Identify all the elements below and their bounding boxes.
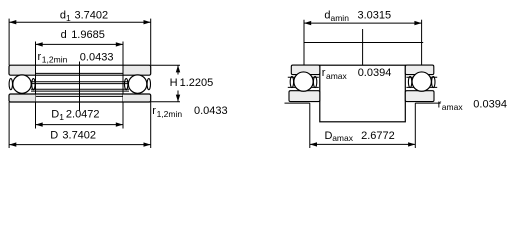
shaft abutment surface (d_a) [304,42,423,44]
svg-text:amin: amin [331,13,350,23]
housing surface left [285,103,310,148]
svg-text:1: 1 [59,112,64,122]
svg-text:amax: amax [332,133,354,143]
center line left view [79,62,81,111]
svg-text:d: d [61,29,67,41]
cage and raceway lines between balls (left view) [31,82,129,91]
svg-text:0.0433: 0.0433 [80,51,114,63]
svg-text:1: 1 [66,13,71,23]
shaft washer (top washer, left view) [9,65,151,75]
svg-text:1,2min: 1,2min [42,55,68,65]
label r1,2min bottom right [152,105,227,119]
cage pocket arcs around right ball [125,79,151,90]
bore edge / extension line right (d, D1) [122,42,124,129]
svg-text:0.0394: 0.0394 [473,99,507,111]
svg-text:D: D [50,130,58,142]
svg-text:D: D [51,109,59,121]
left bearing section: bottom washer [289,91,320,102]
svg-text:1,2min: 1,2min [157,109,183,119]
right bearing section: ball [412,72,431,91]
dimension D (bottom) [9,130,151,147]
housing washer (bottom washer, left view) [9,94,151,102]
left bearing section: cage rails [288,77,319,87]
right bearing section: top washer [405,65,434,75]
label r1,2min top [38,51,114,65]
label r_amax right side [438,99,507,113]
svg-text:1.2205: 1.2205 [180,77,214,89]
dimension D_amax [310,130,416,147]
housing surface right [415,103,440,148]
dimension d (second) [36,29,124,47]
left bearing section: cage pocket arcs [290,76,317,87]
dimension d_amin [304,10,422,26]
svg-text:0.0394: 0.0394 [358,67,392,79]
svg-text:3.0315: 3.0315 [358,10,392,22]
dimension d1 (top) [9,9,151,24]
extension lines d_amin [304,20,422,65]
svg-text:3.7402: 3.7402 [75,9,109,21]
cage pocket arcs around left ball [9,79,35,90]
left bearing section: ball [294,72,313,91]
svg-text:H: H [170,77,178,89]
dimension H (right of left view) [151,65,214,102]
svg-text:1.9685: 1.9685 [71,29,105,41]
center line right view [362,29,364,122]
outer extension lines (d1, D) [9,19,151,148]
right bearing section: cage rails [406,77,437,87]
dimension D1 [36,109,124,127]
bore edge / extension line left (d, D1) [35,42,37,129]
right bearing section: bottom washer [405,91,434,102]
label r_amax inside block [322,67,395,81]
svg-text:amax: amax [326,71,348,81]
ball left (left view) [13,75,31,93]
svg-text:3.7402: 3.7402 [62,130,96,142]
svg-text:2.0472: 2.0472 [66,109,100,121]
ball right (left view) [128,75,146,93]
central block (shaft cross-section) [320,65,406,122]
svg-text:0.0433: 0.0433 [194,105,228,117]
svg-text:amax: amax [442,102,464,112]
svg-text:2.6772: 2.6772 [361,130,395,142]
right bearing section: cage pocket arcs [408,76,435,87]
left bearing section: top washer [291,65,320,75]
